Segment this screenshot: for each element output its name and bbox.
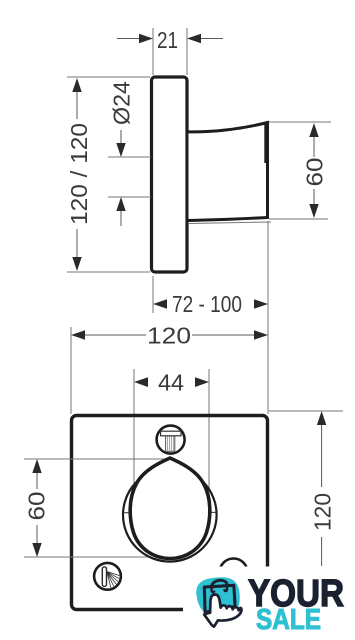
dimension 120 top line: [85, 334, 146, 336]
knob circle side ticks: [124, 512, 137, 514]
logo hand cursor: [204, 595, 241, 627]
dimension 60 right arrows: [309, 123, 318, 137]
logo bag handle hooks: [212, 586, 228, 592]
dimension 72-100 arrows: [153, 299, 167, 308]
dimension 21 arrows: [139, 34, 153, 43]
logo shopping bag: [204, 585, 235, 612]
bath icon (mostly hidden): [220, 559, 248, 587]
screw icon stem hatched: [166, 436, 175, 452]
knob side view: [187, 123, 268, 221]
dimension 120/120 extension lines: [67, 76, 150, 78]
svg-text:Ø24: Ø24: [109, 81, 135, 125]
svg-text:120: 120: [310, 493, 336, 531]
svg-text:21: 21: [157, 27, 178, 53]
logo white background: [183, 567, 355, 640]
dimension 44 arrows: [134, 377, 148, 387]
dimension 120 right arrow: [317, 411, 326, 425]
svg-text:44: 44: [158, 370, 184, 396]
svg-text:120: 120: [147, 323, 191, 349]
dimension 72-100 extension lines: [152, 276, 154, 313]
dimension 60 left arrows: [32, 459, 41, 473]
re-draw 44 extension lines over plate: [133, 417, 135, 497]
logo bag handle: [211, 580, 227, 587]
dimension 60 left extension lines: [24, 458, 168, 460]
dimension 120 top extension line left: [70, 327, 72, 414]
dimension O24 lines: [120, 130, 122, 143]
svg-text:120 / 120: 120 / 120: [66, 123, 92, 225]
svg-text:SALE: SALE: [256, 604, 321, 636]
logo teal blob: [196, 577, 239, 615]
dimension 120 right line: [321, 425, 323, 487]
dimension 120/120 line: [76, 92, 78, 119]
svg-text:72 - 100: 72 - 100: [172, 291, 242, 317]
hand shower icon: [94, 563, 121, 590]
dimension O24 arrows: [116, 143, 125, 157]
screw icon circle: [157, 426, 185, 454]
plate side view: [152, 77, 188, 272]
dimension 21 extension lines: [152, 28, 154, 75]
knob face inner edge: [264, 124, 266, 163]
dimension 120 right extension line: [269, 410, 343, 412]
dimension 120/120 arrows: [72, 78, 81, 92]
screw icon bar: [161, 431, 181, 436]
dimension 44 extension lines: [133, 369, 135, 497]
dimension 120 top arrows: [71, 330, 85, 339]
knob teardrop: [130, 458, 210, 559]
front plate: [72, 416, 268, 610]
dimension 60 right extension lines: [269, 121, 331, 123]
dimension 21 leader lines: [117, 38, 140, 40]
svg-text:60: 60: [24, 492, 50, 521]
dimension 60 left line: [36, 473, 38, 489]
knob under-skirt line: [189, 222, 271, 224]
knob circle: [123, 468, 217, 562]
svg-text:60: 60: [302, 158, 328, 187]
dimension 60 right line: [313, 137, 315, 157]
